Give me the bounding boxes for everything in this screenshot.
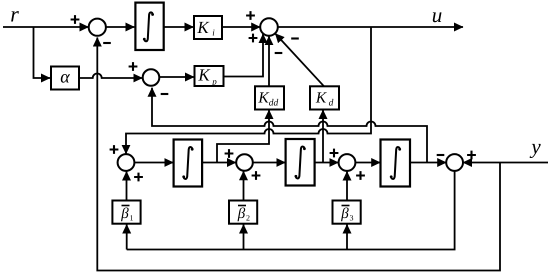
- integrator I1: [135, 3, 163, 50]
- wire pickoff x1hat up and left to S3 minus input via upper bus with hops: [152, 88, 427, 163]
- svg-text:y: y: [529, 135, 541, 159]
- wire pickoff I3 output up to Kd input: [322, 110, 324, 163]
- svg-text:β: β: [237, 206, 246, 222]
- integrator I2: [174, 140, 203, 187]
- gain block Ki: [194, 16, 222, 39]
- svg-text:r: r: [10, 2, 19, 27]
- wire y into S7 plus input: [463, 162, 548, 164]
- svg-text:p: p: [211, 77, 217, 87]
- wire y feedback down along bottom bus and up to S1 minus input: [97, 38, 500, 271]
- block beta2: [229, 201, 257, 224]
- node y input label: [529, 135, 541, 159]
- svg-text:K: K: [257, 90, 269, 107]
- svg-text:1: 1: [130, 214, 134, 223]
- node r input label: [10, 2, 19, 27]
- wire correction bus up into beta2: [243, 225, 245, 250]
- wire S7 output down to correction bus: [127, 171, 455, 250]
- wire branch from r down to alpha block: [34, 27, 51, 78]
- summing junction S2: [246, 11, 299, 53]
- integrator I3: [286, 139, 315, 186]
- summing junction S1: [71, 15, 111, 43]
- integrator I4: [381, 140, 411, 187]
- svg-text:K: K: [315, 90, 327, 107]
- wire I2 to summing junction S5: [202, 162, 236, 164]
- svg-text:d: d: [329, 99, 334, 109]
- gain block Kd: [310, 86, 339, 109]
- block beta3: [333, 201, 361, 224]
- wire beta3 output up to S6 plus input: [346, 172, 348, 201]
- svg-text:β: β: [120, 206, 129, 222]
- svg-text:dd: dd: [269, 99, 279, 109]
- summing junction S7: [437, 151, 476, 171]
- gain block Kdd: [255, 86, 284, 109]
- wire correction bus up into beta1: [126, 225, 128, 250]
- wire I3 to summing junction S6: [315, 162, 339, 164]
- summing junction S3: [129, 62, 169, 94]
- wire S1 to integrator I1: [106, 26, 134, 28]
- gain block Kp: [195, 66, 224, 87]
- node u output label: [432, 3, 443, 27]
- wire S6 to integrator I4: [355, 162, 380, 164]
- wire u feedback down to observer input bus into S4: [126, 27, 371, 154]
- wire I1 to gain Ki: [164, 26, 194, 28]
- wire S3 to gain Kp: [159, 76, 194, 78]
- svg-text:2: 2: [246, 214, 250, 223]
- summing junction S4: [110, 145, 143, 181]
- wire correction bus up into beta3: [346, 225, 348, 250]
- svg-text:α: α: [60, 67, 70, 87]
- svg-text:u: u: [432, 3, 443, 27]
- summing junction S6: [330, 149, 365, 180]
- wire beta2 output up to S5 plus input: [243, 171, 245, 200]
- wire Kdd output up to S2 minus input: [268, 36, 270, 86]
- wire S5 to integrator I3: [253, 162, 285, 164]
- wire r to summing junction S1: [3, 26, 89, 28]
- wire Kd output diagonal up to S2 minus input: [275, 34, 324, 87]
- svg-text:β: β: [340, 206, 349, 222]
- svg-text:K: K: [196, 18, 210, 37]
- wire S2 to u output: [278, 26, 463, 28]
- svg-text:K: K: [197, 66, 211, 85]
- summing junction S5: [225, 149, 261, 180]
- wire Ki to summing junction S2: [222, 26, 260, 28]
- wire I4 to summing junction S7: [410, 162, 446, 164]
- block beta1: [112, 201, 140, 224]
- svg-text:3: 3: [350, 214, 354, 223]
- wire pickoff I2 output up to Kdd input: [217, 110, 269, 163]
- wire alpha to summing junction S3 with hop over feedback line: [79, 74, 142, 79]
- wire Kp up to S2 plus input: [224, 34, 264, 77]
- block alpha: [51, 67, 79, 90]
- wire S4 to integrator I2: [134, 162, 173, 164]
- wire beta1 output up to S4 plus input: [126, 172, 128, 201]
